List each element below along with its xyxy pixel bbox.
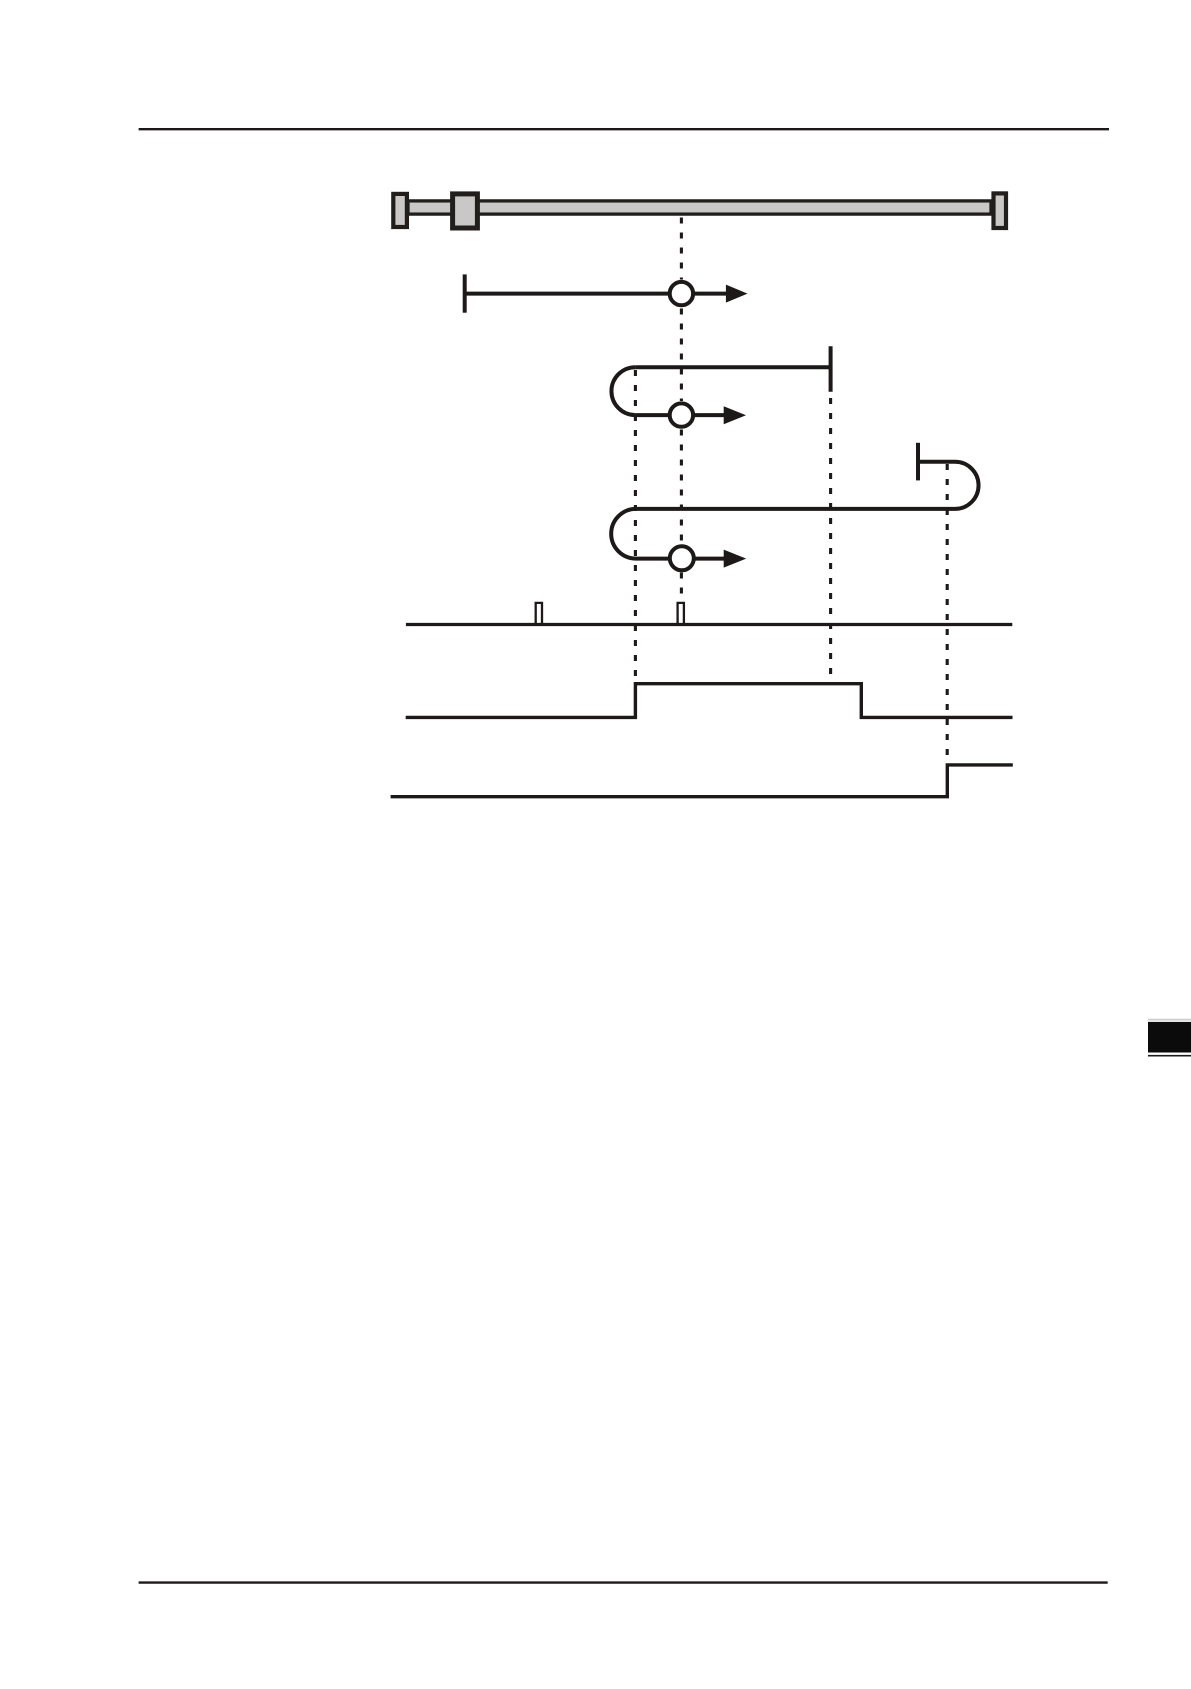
motion 3 middle line: [636, 507, 955, 511]
motion 3 circle marker: [670, 546, 694, 570]
page-edge tab underline: [1148, 1055, 1191, 1057]
dashed line D1 circle3-to-pulse: [680, 573, 683, 600]
header rule: [139, 128, 1109, 130]
motion 2 circle marker: [670, 403, 693, 426]
motion 3 right U-turn: [955, 462, 979, 509]
waveform 3 done signal: [391, 765, 1013, 797]
motion 3 top line: [918, 460, 955, 464]
dashed line D1 circle1-to-circle2: [680, 309, 683, 402]
dashed line D2: [634, 370, 637, 682]
dashed line D3: [829, 398, 832, 682]
waveform 1 baseline: [406, 623, 1012, 626]
motion 1 shaft: [465, 292, 738, 296]
dashed line D1 rail-to-circle1: [680, 218, 683, 280]
motion 2 bottom shaft: [635, 413, 736, 417]
waveform 1 pulse 2: [678, 603, 684, 624]
motion 1 circle marker: [670, 282, 693, 305]
motion 1 arrowhead: [726, 285, 748, 303]
rail bar: [408, 201, 991, 214]
right end stop: [994, 193, 1007, 228]
carriage block: [453, 194, 478, 228]
motion 2 arrowhead: [724, 406, 746, 424]
dashed line D4: [946, 464, 949, 762]
waveform 2 gate signal: [406, 684, 1013, 718]
motion 2 end tick: [829, 346, 833, 391]
dashed line D1 circle2-to-circle3: [680, 430, 683, 544]
waveform 1 pulse 1: [536, 603, 542, 624]
left end stop: [393, 194, 407, 227]
motion 3 start tick: [916, 443, 920, 481]
motion 3 arrowhead: [724, 550, 747, 568]
motion 3 bottom shaft: [636, 557, 736, 561]
motion 1 start tick: [463, 274, 467, 312]
motion 2 U-turn: [611, 367, 635, 415]
page-edge tab gray strip: [1148, 1019, 1191, 1021]
motion 2 top line: [635, 365, 830, 369]
footer rule: [139, 1581, 1108, 1583]
page-edge tab black block: [1148, 1022, 1191, 1053]
motion 3 left U-turn: [611, 509, 636, 559]
